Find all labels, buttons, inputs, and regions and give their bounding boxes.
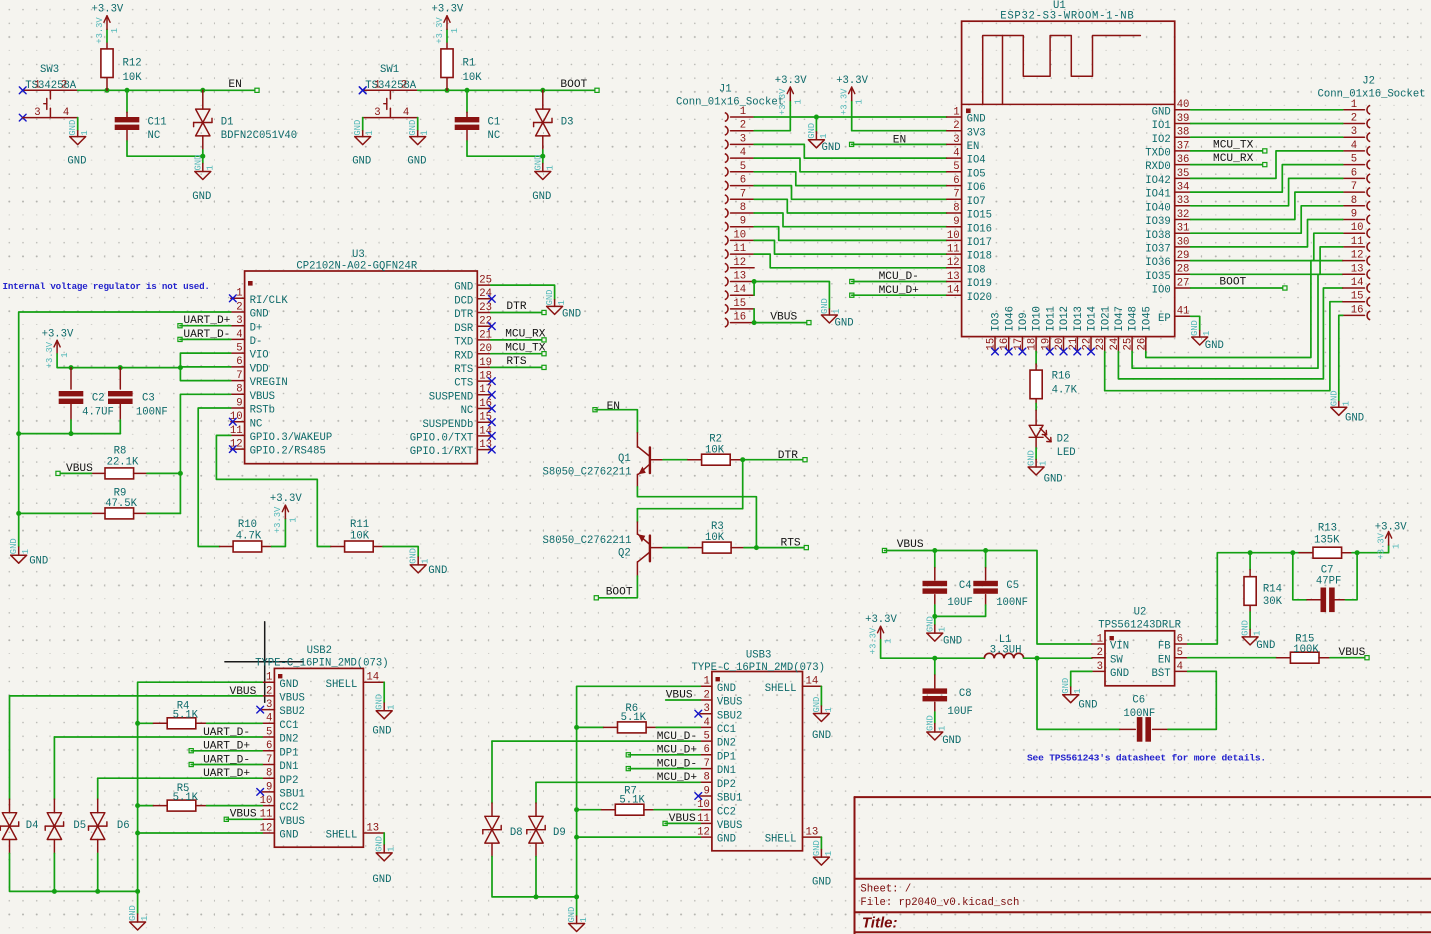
net label MCU_TX at U3 RXD — [491, 353, 544, 355]
svg-text:GND: GND — [67, 156, 86, 168]
svg-text:DP2: DP2 — [717, 779, 736, 791]
svg-text:D+: D+ — [250, 322, 263, 334]
svg-text:VBUS: VBUS — [669, 813, 696, 825]
svg-text:GND: GND — [1044, 474, 1063, 486]
svg-text:VBUS: VBUS — [66, 463, 93, 475]
svg-text:25: 25 — [1123, 338, 1135, 351]
wire L1 to U2 SW — [1024, 657, 1092, 659]
svg-text:1: 1 — [80, 130, 90, 135]
wire J1 pin2 to +3.3V — [754, 101, 790, 131]
svg-text:GND: GND — [1110, 668, 1129, 680]
J2 pin 11 — [1367, 243, 1370, 252]
svg-text:41: 41 — [1177, 306, 1190, 318]
U1 pin 32 IO39 — [1175, 219, 1191, 221]
svg-text:IO16: IO16 — [967, 223, 992, 235]
U3 pin 20 RXD — [477, 353, 491, 355]
J1 pin 14 — [725, 291, 728, 300]
USB2 pin 8 DP2 — [262, 777, 274, 779]
svg-text:24: 24 — [1109, 338, 1121, 351]
U1 pin 29 IO36 — [1175, 260, 1191, 262]
ground — [813, 857, 829, 865]
svg-text:GND: GND — [822, 142, 841, 154]
svg-text:IO38: IO38 — [1145, 230, 1170, 242]
svg-text:IO45: IO45 — [1141, 306, 1153, 331]
svg-text:1: 1 — [1039, 461, 1049, 466]
svg-text:IO48: IO48 — [1128, 306, 1140, 331]
svg-text:6: 6 — [1177, 633, 1183, 645]
U1 pin 27 IO0 — [1175, 287, 1191, 289]
capacitor C7 47PF — [1293, 553, 1307, 600]
USB3 pin1 wire — [577, 686, 701, 897]
ground — [376, 711, 392, 719]
svg-text:3: 3 — [266, 699, 272, 711]
svg-text:IO17: IO17 — [967, 237, 992, 249]
U3 RSTb wire to R10 — [198, 408, 231, 547]
svg-text:GND: GND — [967, 114, 986, 126]
svg-text:GND: GND — [372, 726, 391, 738]
resistor R16 4.7K — [1035, 352, 1037, 365]
svg-text:4.7K: 4.7K — [236, 530, 262, 542]
resistor R1 10K — [446, 78, 448, 91]
svg-text:D4: D4 — [26, 820, 39, 832]
USB2 pin 12 GND — [262, 832, 274, 834]
svg-text:13: 13 — [733, 271, 746, 283]
svg-text:10K: 10K — [463, 72, 483, 84]
svg-text:Q2: Q2 — [618, 547, 631, 559]
svg-text:10UF: 10UF — [947, 706, 972, 718]
U1 pin 30 IO37 — [1175, 246, 1191, 248]
svg-text:MCU_D-: MCU_D- — [657, 758, 697, 770]
svg-text:3: 3 — [1097, 661, 1103, 673]
svg-text:NC: NC — [488, 130, 501, 142]
USB3 pin 12 GND — [700, 836, 712, 838]
no-connect pin 1 — [359, 87, 366, 94]
svg-text:GND: GND — [1256, 640, 1275, 652]
net label BOOT — [595, 88, 599, 92]
U3 VBUS pin8 wire to R8 — [180, 394, 230, 513]
svg-text:D1: D1 — [221, 117, 234, 129]
svg-text:IO20: IO20 — [967, 292, 992, 304]
svg-text:NC: NC — [148, 130, 161, 142]
resistor R6 5.1K — [577, 726, 604, 728]
capacitor C2 4.7UF — [70, 368, 72, 389]
svg-text:15: 15 — [733, 298, 746, 310]
U3 pin 10 NC — [231, 421, 245, 423]
svg-text:11: 11 — [947, 244, 960, 256]
svg-text:GND: GND — [812, 697, 822, 713]
svg-text:R10: R10 — [238, 519, 257, 531]
resistor R14 30K — [1249, 553, 1251, 570]
U3 GPIO.3 wire to R11 — [216, 435, 330, 546]
svg-text:+3.3V: +3.3V — [273, 506, 283, 533]
U1 pin 17 IO9 — [1021, 337, 1023, 352]
svg-text:29: 29 — [1177, 250, 1190, 262]
IC U1 ESP32-S3-WROOM-1-NB — [962, 21, 1175, 336]
U1 pin 18 IO10 — [1035, 337, 1037, 352]
svg-text:9: 9 — [1351, 209, 1357, 221]
USB2 pin 5 DN2 — [262, 736, 274, 738]
svg-text:2: 2 — [953, 120, 959, 132]
U1 pin 23 IO21 — [1104, 337, 1106, 352]
net label BOOT to Q2 — [596, 576, 637, 598]
resistor R12 10K — [106, 78, 108, 91]
svg-text:IO42: IO42 — [1145, 175, 1170, 187]
svg-text:GND: GND — [812, 730, 831, 742]
U1 pin 4 IO4 — [947, 157, 962, 159]
svg-text:IO8: IO8 — [967, 264, 986, 276]
switch pin 4 to ground — [77, 118, 79, 131]
svg-text:IO21: IO21 — [1100, 306, 1112, 331]
U3 pin 23 DTR — [477, 312, 491, 314]
capacitor C3 100NF — [119, 368, 121, 389]
U1 pin 11 IO18 — [947, 253, 962, 255]
svg-text:2: 2 — [704, 689, 710, 701]
feedback rail — [1250, 552, 1293, 554]
svg-text:GND: GND — [372, 874, 391, 886]
svg-text:GND: GND — [250, 309, 269, 321]
svg-text:IO14: IO14 — [1087, 306, 1099, 331]
ground — [927, 732, 943, 740]
resistor R3 10K — [663, 547, 689, 549]
J1 pin 1 — [725, 113, 728, 122]
svg-text:DN2: DN2 — [279, 734, 298, 746]
ground — [821, 315, 837, 323]
wire VBUS rail — [885, 551, 1092, 645]
J1 pin 5 — [725, 167, 728, 176]
capacitor C5 100NF — [985, 551, 987, 568]
U1 pin 16 IO46 — [1008, 337, 1010, 352]
J1 pin 15 — [725, 305, 728, 314]
svg-text:SBU1: SBU1 — [279, 789, 304, 801]
svg-text:135K: 135K — [1314, 534, 1340, 546]
USB2 pin 11 VBUS — [262, 818, 274, 820]
svg-text:5.1K: 5.1K — [173, 709, 199, 721]
svg-text:10K: 10K — [350, 530, 370, 542]
U3 pin 14 GPIO.0/TXT — [477, 435, 491, 437]
svg-text:S8050_C2762211: S8050_C2762211 — [543, 535, 632, 547]
wire BOOT — [418, 89, 597, 91]
svg-text:1: 1 — [421, 559, 431, 564]
svg-text:TXD: TXD — [454, 337, 473, 349]
svg-text:EN: EN — [228, 79, 241, 91]
U3 VDD wire — [180, 366, 230, 368]
svg-text:8: 8 — [953, 202, 959, 214]
svg-text:IO1: IO1 — [1152, 120, 1171, 132]
net label EN at U1 — [850, 142, 854, 146]
svg-text:CTS: CTS — [454, 378, 473, 390]
svg-text:1: 1 — [832, 309, 842, 314]
svg-text:SUSPEND: SUSPEND — [429, 391, 474, 403]
svg-text:GND: GND — [353, 120, 363, 136]
svg-text:2: 2 — [61, 79, 67, 91]
USB3 pin 8 DP2 — [700, 781, 712, 783]
power +3.3V — [1388, 532, 1390, 546]
power +3.3V — [446, 16, 448, 30]
svg-text:2: 2 — [401, 79, 407, 91]
svg-text:DSR: DSR — [454, 323, 474, 335]
svg-text:SHELL: SHELL — [765, 683, 797, 695]
svg-text:1: 1 — [1253, 631, 1263, 636]
svg-text:1: 1 — [1392, 544, 1402, 549]
svg-text:R14: R14 — [1263, 583, 1282, 595]
svg-text:8: 8 — [1351, 195, 1357, 207]
svg-text:10K: 10K — [123, 72, 143, 84]
net label VBUS pin11 — [663, 821, 667, 825]
title block — [855, 796, 1431, 798]
svg-text:DP2: DP2 — [279, 775, 298, 787]
no-connect — [488, 446, 495, 453]
svg-text:IO0: IO0 — [1152, 285, 1171, 297]
U2 pin 4 BST — [1175, 670, 1188, 672]
svg-text:C5: C5 — [1006, 580, 1019, 592]
USB3 SHELL pin 14 — [803, 685, 822, 687]
no-connect SBU2 SBU1 — [257, 706, 264, 713]
svg-text:GND: GND — [1190, 320, 1200, 336]
U1 pin 28 IO35 — [1175, 273, 1191, 275]
J1 pin 12 — [725, 263, 728, 272]
U1 pin 6 IO6 — [947, 185, 962, 187]
svg-text:100NF: 100NF — [996, 597, 1028, 609]
svg-text:6: 6 — [704, 744, 710, 756]
svg-text:D9: D9 — [553, 827, 566, 839]
svg-text:+3.3V: +3.3V — [45, 341, 55, 368]
svg-text:12: 12 — [947, 257, 960, 269]
svg-text:Conn_01x16_Socket: Conn_01x16_Socket — [676, 97, 784, 109]
J2 pin 8 — [1367, 201, 1370, 210]
svg-text:6: 6 — [236, 356, 242, 368]
svg-text:GND: GND — [1345, 413, 1364, 425]
svg-text:11: 11 — [733, 243, 746, 255]
svg-text:4: 4 — [704, 717, 710, 729]
svg-text:1: 1 — [205, 165, 215, 170]
J2 pin 12 — [1367, 256, 1370, 265]
ground — [813, 714, 829, 722]
svg-text:J1: J1 — [719, 84, 732, 96]
svg-text:EN: EN — [1158, 654, 1171, 666]
U3 pin 13 GPIO.1/RXT — [477, 449, 491, 451]
ground — [355, 137, 371, 145]
svg-text:+3.3V: +3.3V — [836, 75, 868, 87]
ground — [1063, 695, 1079, 703]
svg-text:33: 33 — [1177, 195, 1190, 207]
svg-text:+3.3V: +3.3V — [1376, 532, 1386, 559]
svg-text:1: 1 — [937, 726, 947, 731]
J1 pin 8 — [725, 209, 728, 218]
svg-text:Q1: Q1 — [618, 453, 631, 465]
J2 pin 4 — [1367, 147, 1370, 156]
svg-text:IO7: IO7 — [967, 196, 986, 208]
svg-text:R16: R16 — [1052, 371, 1071, 383]
U3 pin 16 NC — [477, 408, 491, 410]
svg-text:SW1: SW1 — [380, 64, 399, 76]
svg-text:28: 28 — [1177, 264, 1190, 276]
U1 pin 1 GND — [947, 116, 962, 118]
ground — [808, 140, 824, 148]
svg-text:5.1K: 5.1K — [173, 792, 199, 804]
svg-text:7: 7 — [236, 370, 242, 382]
U1 pin 40 GND — [1175, 109, 1191, 111]
svg-text:14: 14 — [733, 284, 746, 296]
svg-text:BOOT: BOOT — [560, 79, 587, 91]
svg-text:14: 14 — [1351, 277, 1364, 289]
transistor Q1 S8050 — [636, 433, 638, 447]
no-connect — [488, 405, 495, 412]
svg-text:UART_D-: UART_D- — [203, 727, 250, 739]
USB3 pin 5 DN2 — [700, 740, 712, 742]
svg-text:30K: 30K — [1263, 596, 1283, 608]
resistor R13 135K — [1293, 552, 1313, 554]
net label VBUS input — [882, 548, 886, 552]
svg-text:3: 3 — [1351, 126, 1357, 138]
net label UART_D+ at U3 D+ — [178, 324, 182, 328]
svg-text:EP: EP — [1158, 313, 1171, 325]
no-connect — [229, 446, 236, 453]
svg-text:UART_D+: UART_D+ — [183, 315, 230, 327]
capacitor C4 10UF — [934, 551, 936, 568]
svg-text:1: 1 — [387, 847, 397, 852]
U1 pin 13 IO19 — [947, 281, 962, 283]
J2 pin 10 — [1367, 229, 1370, 238]
J2 pin 1 — [1367, 105, 1370, 114]
svg-text:RXD0: RXD0 — [1145, 161, 1170, 173]
svg-text:3: 3 — [236, 315, 242, 327]
svg-text:IO11: IO11 — [1045, 306, 1057, 331]
USB3 pin 10 CC2 — [700, 809, 712, 811]
svg-text:IO39: IO39 — [1145, 216, 1170, 228]
svg-text:1: 1 — [1351, 99, 1357, 111]
svg-text:ESP32-S3-WROOM-1-NB: ESP32-S3-WROOM-1-NB — [1000, 10, 1134, 22]
power +3.3V — [851, 87, 853, 101]
resistor R5 5.1K — [138, 805, 154, 807]
svg-text:VIO: VIO — [250, 350, 269, 362]
TVS diode D9 — [535, 782, 537, 803]
svg-text:+3.3V: +3.3V — [95, 17, 105, 44]
svg-text:+3.3V: +3.3V — [92, 4, 124, 16]
svg-text:USB2: USB2 — [307, 645, 332, 657]
svg-text:VBUS: VBUS — [1339, 647, 1366, 659]
svg-text:C1: C1 — [488, 117, 501, 129]
power +3.3V to U1 3V3 — [852, 101, 947, 131]
svg-text:4.7UF: 4.7UF — [82, 407, 114, 419]
net label VBUS at R8 — [56, 471, 60, 475]
svg-text:EN: EN — [967, 141, 980, 153]
U1 pin 26 IO45 — [1145, 337, 1147, 352]
no-connect — [1019, 348, 1026, 355]
svg-text:IO15: IO15 — [967, 210, 992, 222]
net label MCU_TX at U1 TXD0 — [1191, 150, 1265, 152]
svg-text:11: 11 — [230, 425, 243, 437]
net label MCU_RX at U1 RXD0 — [1191, 164, 1265, 166]
svg-text:3.3UH: 3.3UH — [990, 644, 1022, 656]
U3 pin 19 RTS — [477, 366, 491, 368]
U1 pin 34 IO41 — [1175, 191, 1191, 193]
TVS diode D5 — [53, 737, 55, 799]
svg-text:VBUS: VBUS — [279, 816, 304, 828]
svg-text:+3.3V: +3.3V — [778, 88, 788, 115]
svg-text:9: 9 — [236, 397, 242, 409]
svg-text:GND: GND — [533, 155, 543, 171]
resistor R7 5.1K — [577, 809, 602, 811]
net label EN to Q1 — [593, 408, 597, 412]
svg-text:1: 1 — [557, 300, 567, 305]
svg-text:RI/CLK: RI/CLK — [250, 295, 289, 307]
ground — [1242, 637, 1258, 645]
svg-text:3: 3 — [953, 134, 959, 146]
svg-text:GND: GND — [29, 556, 48, 568]
U3 pin 11 GPIO.3/WAKEUP — [231, 434, 245, 436]
svg-text:+3.3V: +3.3V — [840, 88, 850, 115]
svg-text:GPIO.3/WAKEUP: GPIO.3/WAKEUP — [250, 432, 333, 444]
staircase wires J1 3-11 to U1 4-12 — [754, 144, 947, 158]
svg-text:GND: GND — [193, 155, 203, 171]
svg-text:1: 1 — [140, 916, 150, 921]
U1 pin 38 IO2 — [1175, 136, 1191, 138]
J1 pin 10 — [725, 236, 728, 245]
svg-text:IO18: IO18 — [967, 251, 992, 263]
svg-text:VBUS: VBUS — [279, 693, 304, 705]
svg-text:+3.3V: +3.3V — [432, 4, 464, 16]
svg-text:10: 10 — [1351, 222, 1364, 234]
svg-text:S8050_C2762211: S8050_C2762211 — [543, 467, 632, 479]
U1 pin 24 IO47 — [1117, 337, 1119, 352]
svg-text:10: 10 — [733, 229, 746, 241]
svg-text:1: 1 — [884, 638, 894, 643]
svg-text:DP1: DP1 — [279, 747, 298, 759]
svg-text:24: 24 — [479, 288, 492, 300]
svg-text:2: 2 — [1097, 647, 1103, 659]
no-connect — [1088, 348, 1095, 355]
USB2 DN2 wire from D5 — [54, 736, 262, 738]
capacitor C1 NC — [466, 90, 468, 112]
svg-text:GND: GND — [717, 834, 736, 846]
U1 pin 2 3V3 — [947, 130, 962, 132]
svg-text:4: 4 — [236, 329, 242, 341]
svg-text:RXD: RXD — [454, 350, 473, 362]
no-connect SBU2 SBU1 — [695, 710, 702, 717]
net label MCU_D+ DP1 — [626, 753, 630, 757]
no-connect — [1005, 348, 1012, 355]
svg-text:GND: GND — [1241, 620, 1251, 636]
svg-text:IO35: IO35 — [1145, 271, 1170, 283]
svg-text:1: 1 — [819, 134, 829, 139]
svg-text:IO3: IO3 — [991, 312, 1003, 331]
svg-text:TYPE-C_16PIN_2MD(073): TYPE-C_16PIN_2MD(073) — [692, 662, 826, 674]
svg-text:MCU_RX: MCU_RX — [1213, 153, 1254, 165]
svg-text:4.7K: 4.7K — [1052, 384, 1078, 396]
svg-text:GND: GND — [1152, 106, 1171, 118]
ground under C4 — [932, 614, 937, 619]
U3 VREGIN wire — [180, 368, 230, 381]
U3 GND pin25 to ground — [491, 285, 555, 300]
J2 pin 7 — [1367, 188, 1370, 197]
svg-text:6: 6 — [266, 740, 272, 752]
USB2 pin2 VBUS wire to D4 — [10, 696, 263, 799]
svg-text:VREGIN: VREGIN — [250, 377, 288, 389]
svg-text:CP2102N-A02-GQFN24R: CP2102N-A02-GQFN24R — [296, 260, 417, 272]
svg-text:1: 1 — [937, 627, 947, 632]
U3 pin 6 VDD — [231, 366, 245, 368]
J2 pin 6 — [1367, 174, 1370, 183]
svg-text:C4: C4 — [959, 580, 972, 592]
U1 pin 3 EN — [947, 143, 962, 145]
U1 pin 19 IO11 — [1049, 337, 1051, 352]
J1 pin 9 — [725, 222, 728, 231]
connector USB2 TYPE-C_16PIN_2MD(073) — [274, 668, 363, 847]
resistor R2 10K — [663, 459, 688, 461]
svg-text:1: 1 — [1202, 331, 1212, 336]
resistor R4 5.1K — [138, 722, 154, 724]
svg-text:TS34258A: TS34258A — [25, 80, 77, 92]
